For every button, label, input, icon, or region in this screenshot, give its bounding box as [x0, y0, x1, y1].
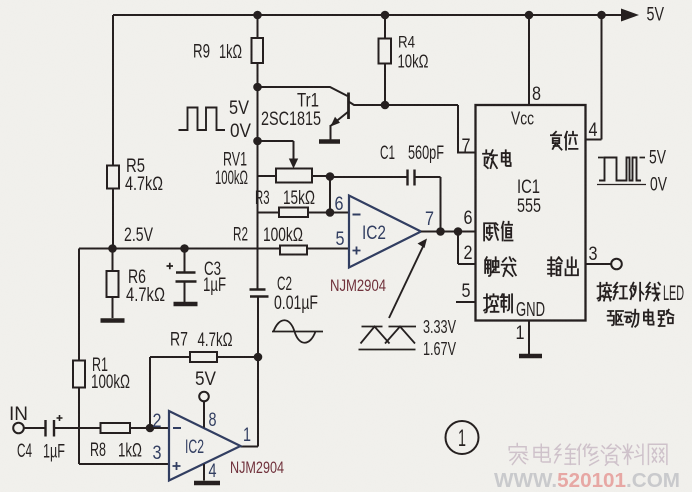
- junction top rail / R4: [381, 11, 390, 20]
- wire U2 pin4 ground: [203, 464, 205, 481]
- junction pin2 node: [146, 424, 155, 433]
- wire R3 left: [258, 212, 280, 214]
- watermark 电: [534, 444, 550, 462]
- U1 plus sign: [353, 247, 361, 255]
- wire RV1 node to C1: [330, 176, 407, 178]
- C3 polarity plus: [167, 263, 174, 269]
- wire collector: [349, 102, 476, 153]
- resistor R5: [107, 166, 119, 189]
- wire R3 right: [308, 212, 330, 214]
- wire U2 pin8 supply: [203, 402, 205, 428]
- junction C1/output: [436, 227, 445, 236]
- resistor R6: [107, 271, 119, 297]
- wire 555 pin5 stub: [456, 301, 476, 303]
- U1 minus sign: [353, 214, 361, 216]
- wire 555 pin1 ground: [528, 321, 530, 355]
- resistor R9: [252, 38, 264, 63]
- junction 2.5V/R6: [108, 244, 117, 253]
- wire 555 pin8: [528, 15, 530, 105]
- triangle wave symbol: [359, 327, 417, 350]
- transistor Q1 emitter: [331, 112, 349, 126]
- ground below U2: [194, 481, 220, 486]
- wire wiper arrow shaft: [293, 141, 295, 162]
- wire R7 to output node: [217, 356, 258, 358]
- square wave reset baseline: [597, 184, 646, 186]
- label 复位 reset: [551, 132, 562, 150]
- wire RV1 right: [312, 175, 330, 177]
- ground below C3: [174, 302, 198, 307]
- junction top rail / R9: [253, 11, 262, 20]
- output terminal circle: [611, 259, 622, 270]
- watermark 网: [648, 444, 666, 464]
- U2 5V terminal circle: [199, 392, 209, 402]
- capacitor C1 plates: [408, 170, 415, 186]
- op-amp U1 triangle: [349, 196, 421, 268]
- capacitor C4 plates: [46, 420, 55, 437]
- emitter arrowhead: [331, 117, 341, 127]
- wire feedback to R7: [150, 356, 190, 358]
- junction collector/R4: [381, 101, 390, 110]
- wire R9 branch: [257, 15, 259, 87]
- label 接红外线LED: [598, 283, 612, 301]
- wire 555 pin3: [586, 263, 612, 265]
- wire C1 to output: [415, 177, 441, 232]
- resistor R4: [379, 39, 392, 64]
- wire R6 branch: [112, 249, 114, 319]
- capacitor C2 plates: [250, 290, 269, 297]
- wire pin6 node to opamp: [330, 212, 349, 214]
- junction R7/output: [254, 353, 263, 362]
- junction top rail / pin8: [525, 11, 534, 20]
- watermark 资: [601, 444, 620, 465]
- wire C4 to R8: [54, 427, 101, 429]
- wire base: [258, 87, 348, 96]
- junction pin6/pin2 branch: [454, 227, 463, 236]
- resistor R1: [73, 361, 85, 388]
- wire R4 branch: [384, 15, 386, 105]
- wire mid vertical R9 node down to C2: [257, 87, 259, 290]
- wire RV1 left: [258, 175, 277, 177]
- wire RV1 node down to pin6 node: [329, 177, 331, 213]
- label 触发 trigger: [485, 257, 499, 276]
- U2 plus sign: [173, 462, 181, 470]
- wire R8 to pin2: [130, 427, 169, 429]
- wire U1 output: [421, 231, 476, 233]
- resistor R8: [101, 423, 131, 433]
- junction wiper tap: [253, 137, 262, 146]
- ground below emitter: [319, 139, 340, 144]
- wire wiper horizontal: [258, 140, 294, 142]
- wire C3 branch lower: [184, 282, 186, 303]
- label 阈值 threshold: [484, 223, 498, 240]
- resistor R3: [279, 208, 308, 218]
- wiper arrowhead: [289, 159, 298, 169]
- resistor R2: [280, 246, 307, 255]
- wire input to C4: [24, 427, 46, 429]
- label 控制 control: [484, 294, 498, 312]
- resistor R7: [190, 352, 217, 362]
- square wave reset symbol dashes: [598, 157, 645, 159]
- label 放电 discharge: [483, 150, 497, 168]
- wire 555 pin4: [586, 15, 602, 140]
- IC1 555 box: [476, 105, 586, 321]
- wire 2.5V rail: [79, 248, 349, 250]
- figure number circle: [446, 421, 479, 454]
- junction pin6 node: [326, 208, 335, 217]
- ground below R6: [101, 318, 125, 323]
- wire feedback vertical: [149, 357, 151, 428]
- annotation arrow line: [389, 246, 424, 319]
- transistor Q1 base bar: [347, 93, 350, 120]
- wire branch to 555 pin2: [458, 232, 476, 265]
- op-amp U2 triangle: [169, 411, 241, 481]
- square wave input symbol: [179, 108, 226, 131]
- sine wave symbol: [272, 320, 323, 343]
- input terminal circle: [13, 423, 24, 434]
- wire noninverting input pin3: [79, 463, 169, 465]
- C4 polarity plus: [57, 415, 63, 421]
- wire opamp2 output: [241, 297, 259, 447]
- junction R9 base node: [253, 83, 262, 92]
- watermark 料: [623, 444, 643, 464]
- wire R1 branch vertical: [78, 249, 80, 465]
- watermark 家: [509, 444, 527, 465]
- wire 5V top rail: [113, 14, 627, 16]
- wire left vertical from rail to 2.5V node: [112, 15, 114, 249]
- potentiometer RV1: [276, 169, 312, 183]
- wire C3 branch upper: [184, 249, 186, 273]
- label 输出 output: [548, 257, 562, 276]
- junction top rail / pin4: [597, 11, 606, 20]
- junction 2.5V/C3: [180, 244, 189, 253]
- 5V rail arrowhead: [621, 9, 639, 22]
- capacitor C3 plates: [176, 273, 197, 282]
- ground below 555: [519, 354, 542, 359]
- watermark 维: [555, 444, 576, 464]
- U2 minus sign: [173, 427, 181, 429]
- annotation arrowhead: [418, 239, 428, 249]
- junction RV1 right node: [326, 172, 335, 181]
- square wave reset symbol: [599, 158, 641, 181]
- label 驱动电路: [608, 311, 623, 325]
- wire emitter to ground: [330, 125, 332, 140]
- watermark 修: [578, 444, 599, 465]
